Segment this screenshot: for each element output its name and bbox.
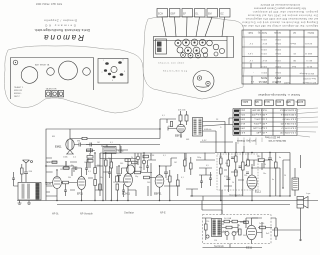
grid bottom tick lines bbox=[238, 138, 262, 147]
mixer tube V3 (ECH triode) bbox=[124, 165, 135, 201]
svg-text:ANT ERDE TA: ANT ERDE TA bbox=[35, 64, 50, 67]
svg-text:EZ 11 Gleichr.: EZ 11 Gleichr. bbox=[302, 81, 316, 84]
svg-text:Art: Art bbox=[293, 31, 296, 34]
socket centre dots bbox=[177, 41, 204, 56]
notes paragraph right bbox=[241, 3, 318, 27]
padder caps row bbox=[116, 166, 128, 201]
svg-text:a 225 g 100 k: a 225 g 100 k bbox=[253, 122, 267, 124]
svg-text:200 V: 200 V bbox=[275, 48, 281, 50]
svg-text:2x255 V: 2x255 V bbox=[272, 80, 281, 83]
tube label box 5 bbox=[207, 9, 218, 18]
svg-text:HF-St.: HF-St. bbox=[52, 213, 59, 216]
svg-text:EBF11: EBF11 bbox=[154, 193, 162, 196]
resistor osc grid bbox=[132, 155, 149, 164]
resistor pair det bbox=[184, 153, 193, 175]
svg-text:50k: 50k bbox=[60, 169, 63, 171]
ground bus bottom of ps bbox=[203, 244, 263, 248]
svg-text:5n: 5n bbox=[271, 160, 273, 162]
wire V4 top link bbox=[160, 158, 178, 178]
magic eye tube EM11 bbox=[66, 129, 74, 154]
extra small resistors mid bbox=[52, 159, 131, 190]
svg-text:1 V: 1 V bbox=[249, 59, 253, 61]
svg-text:gezogen. Messsender uber 200 p: gezogen. Messsender uber 200 pF ankoppel… bbox=[252, 10, 318, 13]
svg-text:0,5: 0,5 bbox=[206, 165, 209, 167]
svg-text:Germany KG: Germany KG bbox=[44, 24, 76, 28]
svg-text:80p: 80p bbox=[139, 167, 142, 169]
antenna coil block bbox=[18, 183, 41, 201]
svg-text:10n: 10n bbox=[263, 173, 266, 175]
svg-text:10n: 10n bbox=[100, 177, 103, 179]
svg-text:ECH11: ECH11 bbox=[295, 100, 303, 103]
svg-text:MW KW: MW KW bbox=[14, 90, 23, 92]
svg-text:0,5M: 0,5M bbox=[224, 176, 229, 178]
svg-text:Alle Spannungen gegen Chassis: Alle Spannungen gegen Chassis gemessen bbox=[253, 7, 306, 10]
coupling cap V1-V2 bbox=[71, 165, 82, 176]
svg-text:1: 1 bbox=[103, 60, 104, 62]
svg-text:Netztrafo: Netztrafo bbox=[214, 245, 224, 248]
trimmer circles bbox=[136, 153, 146, 170]
title line 3 (model info) bbox=[44, 19, 77, 23]
wire right of det bbox=[196, 153, 215, 176]
dial drive circle bbox=[193, 71, 214, 92]
svg-text:1k: 1k bbox=[232, 182, 234, 184]
scatter labels left bbox=[47, 155, 209, 184]
wire EM to AF bbox=[86, 148, 95, 153]
antenna socket circle bbox=[13, 60, 18, 65]
shaft hole right bbox=[83, 68, 91, 76]
title line 2 bbox=[44, 24, 76, 28]
svg-text:2x300: 2x300 bbox=[259, 223, 264, 225]
svg-text:230 V: 230 V bbox=[275, 65, 281, 67]
ferrite core coil dark bbox=[36, 183, 40, 200]
svg-text:auf den Skalenmarken 600 und 1: auf den Skalenmarken 600 und 1400 kHz ab… bbox=[245, 17, 318, 20]
svg-text:EM: EM bbox=[255, 100, 259, 103]
valve name plate labels bbox=[242, 100, 303, 103]
svg-text:Schirmg.: Schirmg. bbox=[257, 31, 267, 34]
svg-text:Misch: Misch bbox=[290, 42, 296, 44]
components inside detector box col3 bbox=[235, 153, 238, 197]
svg-text:1M: 1M bbox=[174, 162, 177, 164]
svg-text:gem. geg. Chassis: gem. geg. Chassis bbox=[236, 139, 256, 141]
volume pot bbox=[242, 153, 248, 197]
svg-text:150: 150 bbox=[244, 175, 247, 177]
svg-text:50 Hz: 50 Hz bbox=[260, 76, 267, 79]
wire mesh horizontals mid bbox=[46, 158, 136, 196]
extra junction dots bbox=[45, 128, 290, 201]
table row 1 bbox=[249, 38, 312, 44]
socket pin numbers bbox=[102, 60, 126, 83]
socket centre hole bbox=[111, 66, 117, 72]
stamp text top-left bbox=[36, 2, 62, 6]
svg-text:EM11: EM11 bbox=[55, 145, 62, 149]
svg-text:TA ANT ER: TA ANT ER bbox=[46, 88, 57, 91]
voltage grid frame bbox=[233, 109, 297, 136]
table row 5 bbox=[253, 71, 314, 75]
HT output parts bbox=[252, 218, 273, 229]
resistor V4 right column bbox=[169, 170, 172, 201]
svg-text:ECH: ECH bbox=[46, 183, 51, 186]
svg-text:300: 300 bbox=[243, 235, 246, 237]
panel label list left bbox=[14, 86, 24, 98]
svg-text:290 mA: 290 mA bbox=[258, 80, 267, 83]
schematic enclosure wire top-left bbox=[46, 119, 160, 201]
chassis top-view rectangle bbox=[154, 37, 234, 58]
tube socket detail box bbox=[98, 59, 128, 84]
svg-text:30k: 30k bbox=[68, 177, 71, 179]
svg-text:100p: 100p bbox=[197, 157, 201, 159]
tube label box 1 bbox=[157, 9, 168, 18]
svg-text:bei 220 V Netz: bei 220 V Netz bbox=[264, 136, 280, 139]
svg-text:230 V: 230 V bbox=[261, 65, 267, 67]
svg-text:100 0: 100 0 bbox=[239, 127, 245, 129]
mains transformer block bbox=[156, 39, 167, 54]
wire ps top link bbox=[202, 201, 222, 215]
svg-text:4u: 4u bbox=[272, 179, 274, 181]
svg-text:2k: 2k bbox=[131, 157, 133, 159]
cluster resistors top V2 bbox=[63, 153, 93, 168]
output transformer bbox=[292, 168, 299, 196]
svg-text:f 6,3 4 255 290: f 6,3 4 255 290 bbox=[252, 109, 267, 111]
svg-text:Skalen-Seilzug: Skalen-Seilzug bbox=[163, 71, 188, 73]
svg-text:2 6,3 5 100 7 2: 2 6,3 5 100 7 2 bbox=[281, 127, 296, 129]
svg-text:Die Vorkreise werden bei 1400: Die Vorkreise werden bei 1400 kHz auf Ma… bbox=[248, 14, 318, 17]
svg-text:Si 0,8A: Si 0,8A bbox=[224, 217, 232, 220]
svg-text:6 2x255 250 6,3: 6 2x255 250 6,3 bbox=[280, 109, 296, 111]
svg-text:1M: 1M bbox=[97, 142, 100, 144]
extra wires em section bbox=[86, 143, 120, 154]
svg-text:Dietz-Mechanik Rundfunkgerateb: Dietz-Mechanik Rundfunkgerateb. bbox=[34, 28, 90, 32]
svg-text:k 1,6 s 100 a: k 1,6 s 100 a bbox=[254, 118, 267, 120]
extra labels em section bbox=[52, 136, 113, 144]
svg-text:45 1V: 45 1V bbox=[239, 122, 245, 124]
svg-text:EL 11: EL 11 bbox=[306, 65, 312, 67]
svg-text:EZ11: EZ11 bbox=[242, 100, 248, 103]
output tube V5 EL11 bbox=[247, 168, 257, 201]
svg-text:EL11: EL11 bbox=[255, 190, 261, 194]
wire det row bbox=[164, 153, 198, 196]
top IF link labels bbox=[162, 115, 222, 141]
svg-text:8u: 8u bbox=[279, 157, 281, 159]
title logo "Ramona" bbox=[44, 33, 84, 42]
svg-text:Anode: Anode bbox=[273, 31, 281, 34]
ps inner resistor bbox=[239, 221, 249, 235]
svg-text:5M: 5M bbox=[77, 141, 80, 143]
electrolytic caps bbox=[223, 231, 236, 240]
extra wire top right bbox=[225, 118, 233, 125]
svg-text:110: 110 bbox=[214, 240, 217, 242]
mains input parts bbox=[203, 218, 212, 240]
svg-text:TA ANT 1: TA ANT 1 bbox=[14, 86, 24, 89]
svg-text:10k: 10k bbox=[225, 163, 228, 165]
wire osc section verticals bbox=[103, 153, 128, 201]
wire mid bus y153 bbox=[100, 152, 215, 154]
svg-text:a 230 k 6 g 200: a 230 k 6 g 200 bbox=[251, 113, 267, 115]
wire under IF row bbox=[200, 140, 233, 142]
screen resistor V5 bbox=[253, 159, 270, 162]
IF amp tube V4 bbox=[155, 166, 164, 201]
svg-text:Dresden / Zeppelin: Dresden / Zeppelin bbox=[44, 19, 77, 23]
svg-text:8: 8 bbox=[123, 60, 124, 62]
svg-text:1k: 1k bbox=[238, 225, 240, 227]
svg-text:EM: EM bbox=[208, 13, 212, 16]
svg-text:4: 4 bbox=[112, 80, 113, 82]
svg-text:40k 40k: 40k 40k bbox=[178, 110, 187, 112]
svg-text:0,1: 0,1 bbox=[162, 115, 165, 117]
svg-text:Chassis von oben: Chassis von oben bbox=[158, 63, 185, 65]
svg-text:NETZ: NETZ bbox=[14, 96, 20, 98]
speaker feed wire bbox=[272, 155, 302, 241]
svg-text:50: 50 bbox=[168, 126, 170, 128]
svg-text:100 V: 100 V bbox=[261, 52, 267, 54]
svg-text:20: 20 bbox=[284, 175, 286, 177]
grid cap of EM tube bbox=[70, 129, 160, 147]
scatter labels bottom ps bbox=[206, 221, 270, 242]
svg-text:25: 25 bbox=[113, 182, 115, 184]
table row 2 bbox=[247, 48, 312, 54]
svg-text:EF11: EF11 bbox=[77, 193, 83, 196]
svg-text:EBF 11: EBF 11 bbox=[304, 52, 312, 54]
voltage grid row labels dark bbox=[234, 110, 239, 135]
wire detector left bbox=[160, 119, 177, 131]
svg-text:0,1: 0,1 bbox=[181, 177, 184, 179]
svg-text:2x300: 2x300 bbox=[283, 81, 290, 83]
svg-text:NF-E: NF-E bbox=[160, 212, 166, 215]
svg-text:0,1: 0,1 bbox=[232, 158, 235, 160]
wire EM line down bbox=[46, 186, 53, 192]
rear chassis panel top edge bbox=[11, 58, 94, 100]
svg-text:Lspr.: Lspr. bbox=[306, 192, 311, 195]
valve name plates row bbox=[242, 100, 306, 106]
svg-text:Alle Werte in Volt: Alle Werte in Volt bbox=[268, 139, 286, 142]
svg-text:2: 2 bbox=[102, 72, 103, 74]
svg-text:200 V: 200 V bbox=[261, 71, 267, 73]
svg-text:EBF: EBF bbox=[171, 13, 176, 16]
mixer-IF coupling parts bbox=[135, 171, 157, 179]
table row 6 dense bbox=[250, 76, 316, 84]
svg-text:100: 100 bbox=[257, 156, 260, 158]
wires fanning right from IF transformer bbox=[203, 122, 226, 153]
svg-text:255 V: 255 V bbox=[274, 76, 281, 79]
svg-text:Sockel u. Spannungs-Angaben: Sockel u. Spannungs-Angaben bbox=[257, 93, 300, 97]
rectifier tube V6 EZ11 bbox=[246, 218, 258, 244]
socket pin pads bbox=[104, 61, 123, 78]
wire links grid to schematic bbox=[216, 142, 244, 153]
wire grid horizontal left section bbox=[46, 161, 74, 172]
svg-text:EF: EF bbox=[183, 13, 187, 16]
wire lower bus right bbox=[190, 190, 290, 215]
svg-text:ERDE L: ERDE L bbox=[14, 93, 23, 95]
svg-text:225 V: 225 V bbox=[275, 52, 281, 54]
svg-text:NF-Vorstufe: NF-Vorstufe bbox=[80, 213, 93, 216]
svg-text:225 V: 225 V bbox=[275, 42, 281, 44]
svg-text:3 0 6 225 8 100: 3 0 6 225 8 100 bbox=[280, 122, 296, 124]
det box extra parts bbox=[224, 160, 249, 192]
svg-text:468: 468 bbox=[186, 139, 189, 141]
svg-text:0,1: 0,1 bbox=[88, 171, 91, 173]
svg-text:0,1: 0,1 bbox=[110, 142, 113, 144]
table row 4 bbox=[261, 65, 312, 67]
svg-text:6: 6 bbox=[124, 71, 125, 73]
oscillator coil components bbox=[105, 153, 113, 201]
wire mesh verticals mid bbox=[66, 153, 151, 196]
svg-text:45 V: 45 V bbox=[262, 59, 267, 61]
svg-text:100 V: 100 V bbox=[261, 38, 267, 40]
speaker opening circle bbox=[21, 67, 38, 84]
svg-text:225 -: 225 - bbox=[240, 113, 245, 115]
svg-text:500: 500 bbox=[120, 163, 123, 165]
wire bottom bus second bbox=[57, 204, 290, 206]
wire ps inner links bbox=[222, 218, 263, 238]
tube label box 4 bbox=[195, 9, 206, 18]
svg-text:6,3 2V: 6,3 2V bbox=[238, 131, 245, 133]
tube label box 3 bbox=[182, 9, 193, 18]
svg-text:Oszillator: Oszillator bbox=[124, 212, 134, 215]
svg-text:0,5M: 0,5M bbox=[150, 155, 155, 157]
tuning capacitor opening circle bbox=[59, 61, 78, 80]
mains transformer bbox=[212, 219, 222, 237]
components inside detector box col2 bbox=[226, 153, 230, 187]
svg-text:2M: 2M bbox=[166, 179, 169, 181]
parts table frame bbox=[242, 30, 318, 84]
components inside detector box col1 bbox=[220, 153, 223, 201]
antenna symbol bbox=[23, 160, 33, 168]
svg-text:225 V: 225 V bbox=[275, 71, 281, 73]
extra verticals right mid bbox=[248, 153, 262, 171]
svg-text:1 0,2 4 225 8 90: 1 0,2 4 225 8 90 bbox=[279, 131, 296, 133]
svg-text:EF 11: EF 11 bbox=[306, 59, 312, 61]
power supply box bbox=[203, 215, 272, 244]
svg-text:EBF11: EBF11 bbox=[175, 135, 183, 138]
svg-text:Abgleich: Der ZF-Abgleich erfo: Abgleich: Der ZF-Abgleich erfolgt bei 46… bbox=[241, 24, 318, 27]
V1 anode resistor bbox=[61, 181, 77, 184]
svg-text:EBF: EBF bbox=[285, 100, 290, 103]
svg-text:100 V: 100 V bbox=[275, 38, 281, 40]
svg-text:1,6 V: 1,6 V bbox=[247, 52, 253, 54]
svg-text:6k: 6k bbox=[185, 158, 187, 160]
scatter labels right bbox=[219, 156, 286, 184]
svg-text:50p: 50p bbox=[135, 176, 138, 178]
svg-text:ECH: ECH bbox=[158, 13, 163, 16]
choke right of box bbox=[271, 218, 278, 240]
resistor pair above IF transformer bbox=[178, 110, 188, 126]
svg-text:100 V: 100 V bbox=[275, 59, 281, 61]
svg-text:0,1: 0,1 bbox=[163, 155, 166, 157]
IF transformer T2 bbox=[193, 118, 203, 137]
svg-text:50k: 50k bbox=[219, 156, 222, 158]
tone cap right bbox=[268, 153, 277, 197]
IF can left dark cluster bbox=[103, 145, 116, 154]
voltage chart heading bbox=[257, 93, 300, 97]
detector dashed box bbox=[217, 154, 258, 190]
svg-text:a 100 g 80: a 100 g 80 bbox=[256, 131, 267, 133]
antenna coupling cap bbox=[24, 168, 33, 182]
svg-text:EZ: EZ bbox=[221, 13, 225, 16]
junction dots mid bbox=[56, 152, 160, 201]
svg-text:2k: 2k bbox=[264, 164, 266, 166]
terminal strip screws bbox=[46, 91, 64, 97]
svg-text:Netz 110/220: Netz 110/220 bbox=[302, 77, 316, 80]
svg-text:100 V: 100 V bbox=[261, 48, 267, 50]
svg-text:80 V: 80 V bbox=[262, 42, 267, 44]
svg-text:mit Rohrenvoltmeter 20 kOhm/V.: mit Rohrenvoltmeter 20 kOhm/V. bbox=[260, 3, 300, 6]
svg-text:Eingang des Mischrohres; danac: Eingang des Mischrohres; danach wird der… bbox=[242, 21, 318, 24]
electrolytic cans right bbox=[213, 44, 224, 56]
title line 1 (maker) bbox=[34, 28, 90, 32]
svg-text:EM 11 Anzeige: EM 11 Anzeige bbox=[299, 72, 314, 75]
svg-text:Rohre: Rohre bbox=[307, 31, 314, 34]
EBF detector tube small bbox=[177, 124, 185, 138]
tube socket circles cluster bbox=[175, 39, 213, 58]
svg-text:4 6,3 7 90 2 0: 4 6,3 7 90 2 0 bbox=[282, 118, 296, 120]
AF tube V2 bbox=[77, 168, 85, 201]
svg-text:20k: 20k bbox=[108, 158, 111, 160]
leader lines from label boxes bbox=[162, 17, 225, 37]
svg-text:k 2 g3 0 a 225: k 2 g3 0 a 225 bbox=[252, 127, 267, 129]
svg-text:570 IEX 750U 008: 570 IEX 750U 008 bbox=[36, 2, 62, 6]
svg-text:230 6: 230 6 bbox=[239, 118, 245, 120]
cap symbols mid bbox=[108, 160, 149, 178]
table header text bbox=[247, 31, 314, 34]
svg-text:2 V: 2 V bbox=[249, 42, 253, 44]
V5 anode wires bbox=[251, 160, 280, 169]
svg-text:5n: 5n bbox=[239, 167, 241, 169]
svg-text:EL11: EL11 bbox=[263, 100, 269, 103]
wave trap resistor bbox=[21, 164, 24, 182]
resistor V4 right column2 bbox=[177, 174, 180, 196]
svg-text:ECH 11: ECH 11 bbox=[304, 42, 312, 44]
svg-text:5 230 8 230 4 6: 5 230 8 230 4 6 bbox=[280, 113, 296, 115]
svg-text:Kath.: Kath. bbox=[247, 31, 253, 34]
left input caps bbox=[12, 172, 18, 186]
tube label box 6 bbox=[220, 9, 231, 18]
resistor column right of V2 bbox=[94, 153, 97, 201]
voltage grid cell values bbox=[238, 109, 296, 134]
tube label box 2 bbox=[170, 9, 181, 18]
wire top bus right section bbox=[215, 153, 290, 197]
loudspeaker bbox=[297, 197, 308, 209]
table row 3 bbox=[249, 59, 312, 61]
svg-text:EM: EM bbox=[52, 136, 55, 138]
svg-text:468kHz: 468kHz bbox=[204, 129, 211, 131]
extra caps mid bbox=[64, 162, 125, 197]
smoothing resistor row2 bbox=[222, 226, 238, 229]
wire mid horizontals bbox=[101, 146, 156, 160]
grid bottom annotations bbox=[236, 136, 286, 143]
panel label text small upper bbox=[35, 64, 50, 67]
feedback wires right bbox=[280, 160, 290, 196]
coupling caps detector bbox=[231, 157, 249, 173]
ground symbols under coil bbox=[18, 201, 32, 205]
svg-text:6,3V: 6,3V bbox=[202, 140, 207, 142]
top-view photo cutout outline bbox=[143, 16, 244, 99]
svg-text:220: 220 bbox=[206, 221, 209, 223]
rear-view photo cutout outline bbox=[4, 46, 143, 113]
fuse and switch row bbox=[222, 217, 247, 223]
svg-text:200: 200 bbox=[147, 182, 150, 184]
shaft hole left bbox=[47, 68, 55, 76]
caps near det bbox=[200, 172, 212, 188]
voltage grid right extensions bbox=[297, 108, 318, 137]
RF tube V1 bbox=[46, 169, 61, 200]
wire bottom bus main bbox=[17, 200, 318, 202]
svg-text:EF11: EF11 bbox=[275, 100, 281, 103]
wire AVC line bbox=[100, 153, 136, 165]
